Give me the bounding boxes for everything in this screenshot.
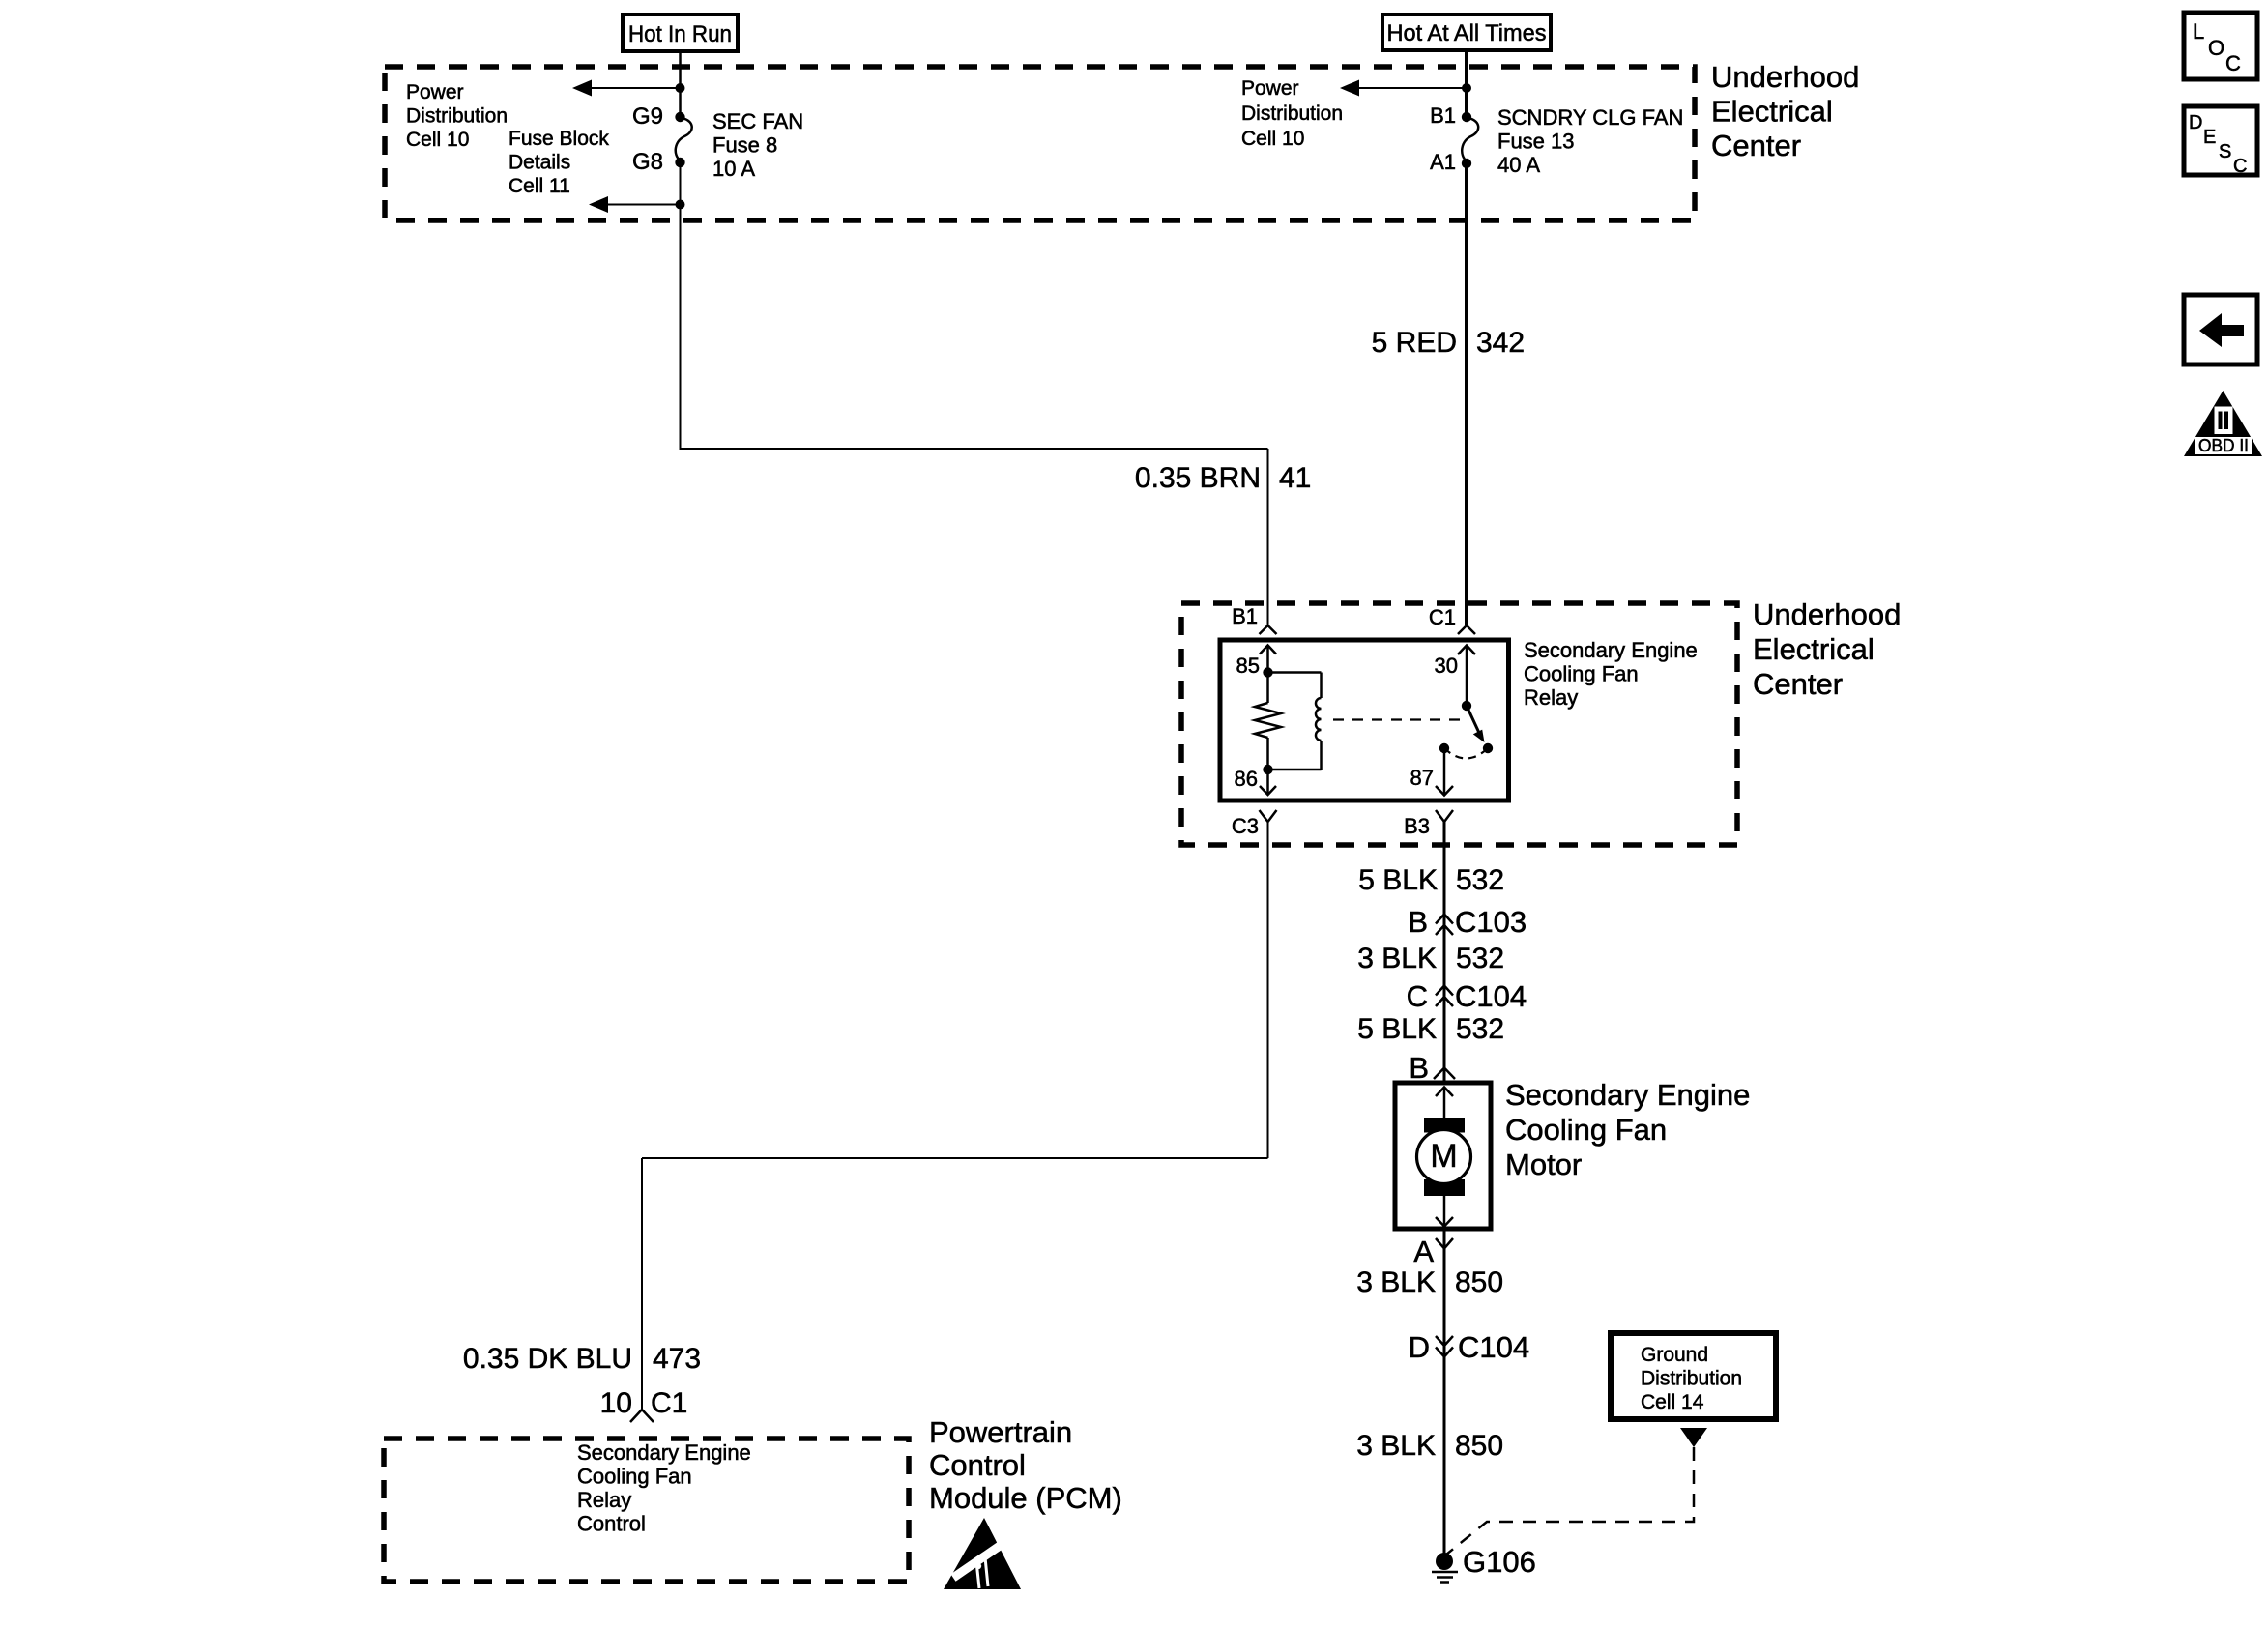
svg-text:473: 473 xyxy=(653,1343,701,1375)
label SCNDRY CLG FAN Fuse 13 40 A xyxy=(1497,105,1683,177)
svg-text:B1: B1 xyxy=(1232,604,1258,628)
svg-text:Distribution: Distribution xyxy=(1241,102,1343,125)
svg-text:C: C xyxy=(2233,156,2247,177)
pin 87 arrow xyxy=(1436,748,1453,796)
svg-text:G106: G106 xyxy=(1463,1545,1536,1579)
svg-text:3 BLK: 3 BLK xyxy=(1356,1266,1436,1298)
label Fuse Block Details Cell 11 xyxy=(509,128,609,197)
svg-text:Module (PCM): Module (PCM) xyxy=(929,1481,1122,1515)
svg-text:41: 41 xyxy=(1279,462,1311,494)
svg-text:S: S xyxy=(2219,141,2231,162)
svg-text:3 BLK: 3 BLK xyxy=(1356,1430,1436,1462)
wire 0.35 BRN 41 xyxy=(681,449,1268,625)
svg-text:Electrical: Electrical xyxy=(1753,632,1875,666)
label 5 BLK 532 xyxy=(1358,864,1504,896)
svg-text:Cooling Fan: Cooling Fan xyxy=(1505,1113,1667,1147)
svg-text:Cell 10: Cell 10 xyxy=(406,129,469,151)
label SEC FAN Fuse 8 10 A xyxy=(712,109,803,181)
pin B (motor) xyxy=(1409,1051,1455,1085)
svg-text:850: 850 xyxy=(1455,1430,1503,1462)
svg-text:Relay: Relay xyxy=(1524,685,1578,710)
svg-text:C104: C104 xyxy=(1455,979,1527,1013)
svg-text:Cell 11: Cell 11 xyxy=(509,175,570,197)
fuse F8 (SEC FAN Fuse 8 10A) xyxy=(675,112,691,167)
wire arrow to Fuse Block Details Cell 11 xyxy=(589,196,681,213)
svg-text:40 A: 40 A xyxy=(1497,153,1540,177)
svg-text:C3: C3 xyxy=(1232,814,1259,838)
svg-text:85: 85 xyxy=(1236,654,1260,678)
svg-text:Secondary Engine: Secondary Engine xyxy=(577,1440,751,1465)
ESD sensitive symbol xyxy=(944,1518,1021,1589)
svg-text:Fuse 13: Fuse 13 xyxy=(1497,130,1575,154)
pin 86 arrow xyxy=(1260,770,1276,795)
svg-text:SEC FAN: SEC FAN xyxy=(712,109,803,133)
icon LOC xyxy=(2184,13,2257,79)
wire B3 down to motor xyxy=(1443,822,1446,1083)
node junction Cell 11 feed xyxy=(676,200,685,210)
svg-text:G8: G8 xyxy=(632,149,663,175)
svg-text:M: M xyxy=(1430,1138,1457,1175)
label Power Distribution Cell 10 (left) xyxy=(406,81,508,151)
svg-text:B1: B1 xyxy=(1430,103,1456,128)
wire fuse 8 down inside box xyxy=(680,162,682,450)
icon back arrow xyxy=(2184,295,2257,364)
svg-text:D: D xyxy=(2189,112,2202,133)
svg-text:0.35 DK BLU: 0.35 DK BLU xyxy=(463,1343,632,1375)
svg-text:C104: C104 xyxy=(1458,1330,1529,1364)
wire from Hot At All Times down to fuse 13 xyxy=(1465,50,1468,117)
svg-text:C1: C1 xyxy=(651,1387,687,1419)
svg-text:Distribution: Distribution xyxy=(1641,1368,1742,1390)
wire dashed ground reference xyxy=(1446,1447,1694,1555)
label 3 BLK 850 xyxy=(1356,1266,1503,1298)
label Secondary Engine Cooling Fan Relay xyxy=(1524,638,1698,710)
label 0.35 DK BLU 473 xyxy=(463,1343,701,1375)
coil (relay winding) xyxy=(1268,673,1322,770)
svg-text:Details: Details xyxy=(509,152,570,174)
underhood electrical center box (top, dashed) xyxy=(385,67,1695,220)
svg-text:B: B xyxy=(1409,1051,1429,1085)
svg-text:Cell 10: Cell 10 xyxy=(1241,128,1304,150)
svg-text:Underhood: Underhood xyxy=(1753,597,1901,631)
node 30 xyxy=(1462,701,1471,711)
svg-text:Cooling Fan: Cooling Fan xyxy=(577,1465,692,1489)
svg-text:10 A: 10 A xyxy=(712,157,755,181)
motor M1 (Secondary Engine Cooling Fan Motor) xyxy=(1395,1083,1491,1229)
svg-text:A: A xyxy=(1413,1235,1434,1268)
label 5 BLK 532 (second) xyxy=(1357,1013,1504,1045)
svg-text:3 BLK: 3 BLK xyxy=(1357,943,1437,974)
svg-text:Underhood: Underhood xyxy=(1711,60,1859,94)
node junction G9 feed xyxy=(676,83,685,93)
wire arrow to Power Distribution (left) xyxy=(572,80,681,97)
svg-text:Control: Control xyxy=(577,1512,646,1536)
node switch contact xyxy=(1483,743,1493,753)
svg-text:30: 30 xyxy=(1435,654,1458,678)
svg-text:5 BLK: 5 BLK xyxy=(1358,864,1438,896)
svg-text:850: 850 xyxy=(1455,1266,1503,1298)
svg-text:Power: Power xyxy=(406,81,464,103)
svg-text:G9: G9 xyxy=(632,103,663,130)
node 86 xyxy=(1263,765,1272,774)
relay K (Secondary Engine Cooling Fan Relay) box xyxy=(1220,640,1509,800)
underhood electrical center box (relay, dashed) xyxy=(1181,603,1737,845)
svg-text:342: 342 xyxy=(1476,327,1525,359)
icon DESC xyxy=(2184,106,2257,177)
svg-text:E: E xyxy=(2203,127,2216,148)
pin 30 arrow xyxy=(1458,646,1475,707)
connector fork C3 xyxy=(1260,810,1277,822)
PCM box (dashed) xyxy=(384,1439,909,1582)
connector 10 C1 (PCM) xyxy=(600,1387,688,1419)
svg-text:B3: B3 xyxy=(1404,814,1430,838)
icon OBD II xyxy=(2184,391,2262,456)
wire C3 down and across to PCM xyxy=(642,822,1268,1409)
svg-text:Cell 14: Cell 14 xyxy=(1641,1391,1704,1413)
svg-text:Electrical: Electrical xyxy=(1711,95,1833,129)
svg-text:Motor: Motor xyxy=(1505,1148,1582,1181)
node junction right feed xyxy=(1462,83,1471,93)
svg-text:B: B xyxy=(1408,905,1428,939)
connector C104 (C) xyxy=(1407,979,1527,1013)
resistor (relay coil suppression) xyxy=(1255,673,1281,770)
svg-text:532: 532 xyxy=(1456,943,1504,974)
ground distribution pointer triangle xyxy=(1680,1428,1707,1447)
svg-text:C1: C1 xyxy=(1429,605,1456,629)
label 3 BLK 850 (second) xyxy=(1356,1430,1503,1462)
svg-text:532: 532 xyxy=(1456,864,1504,896)
label 3 BLK 532 xyxy=(1357,943,1504,974)
svg-text:Center: Center xyxy=(1711,129,1801,162)
connector fork B1 xyxy=(1260,625,1277,634)
svg-text:5 RED: 5 RED xyxy=(1372,327,1457,359)
ground G106 xyxy=(1432,1553,1458,1583)
svg-text:D: D xyxy=(1409,1330,1430,1364)
node Hot At All Times xyxy=(1382,15,1551,50)
svg-text:Secondary Engine: Secondary Engine xyxy=(1505,1078,1750,1112)
svg-text:10: 10 xyxy=(600,1387,632,1419)
wire arrow to Power Distribution (right) xyxy=(1340,80,1467,97)
svg-text:532: 532 xyxy=(1456,1013,1504,1045)
svg-text:86: 86 xyxy=(1235,767,1258,791)
pin A (motor) xyxy=(1413,1235,1453,1268)
svg-text:OBD II: OBD II xyxy=(2198,436,2249,455)
connector C103 (B) xyxy=(1408,905,1527,939)
svg-text:Hot At All Times: Hot At All Times xyxy=(1387,20,1547,46)
connector C104 (D) xyxy=(1409,1330,1530,1364)
label Power Distribution Cell 10 (right) xyxy=(1241,77,1343,150)
svg-text:Ground: Ground xyxy=(1641,1344,1708,1366)
svg-text:A1: A1 xyxy=(1430,150,1456,174)
svg-text:C: C xyxy=(2225,51,2241,75)
svg-text:Secondary Engine: Secondary Engine xyxy=(1524,638,1698,662)
wire dashed contact arc xyxy=(1444,748,1488,759)
svg-text:Cooling Fan: Cooling Fan xyxy=(1524,662,1639,686)
svg-text:Fuse Block: Fuse Block xyxy=(509,128,609,150)
label Underhood Electrical Center (relay) xyxy=(1753,597,1901,701)
fuse F13 (SCNDRY CLG FAN Fuse 13 40A) xyxy=(1462,112,1478,168)
svg-text:Powertrain: Powertrain xyxy=(929,1415,1072,1449)
switch arm (relay contact) xyxy=(1467,706,1485,742)
node 85 xyxy=(1263,667,1272,677)
svg-text:87: 87 xyxy=(1410,766,1434,790)
svg-text:5 BLK: 5 BLK xyxy=(1357,1013,1437,1045)
pin 85 arrow xyxy=(1260,646,1276,674)
connector fork B3 xyxy=(1436,810,1453,822)
label Secondary Engine Cooling Fan Motor xyxy=(1505,1078,1750,1181)
wire 5 RED 342 xyxy=(1465,163,1468,625)
node 87 xyxy=(1439,743,1449,753)
node Hot In Run xyxy=(623,15,738,51)
svg-text:L: L xyxy=(2193,19,2204,44)
svg-text:C: C xyxy=(1407,979,1428,1013)
svg-text:Relay: Relay xyxy=(577,1488,631,1512)
connector fork PCM C1 xyxy=(630,1410,654,1422)
label Underhood Electrical Center (top) xyxy=(1711,60,1859,162)
wire from Hot In Run down to fuse 8 xyxy=(679,51,682,117)
svg-text:Control: Control xyxy=(929,1448,1026,1482)
label 0.35 BRN 41 xyxy=(1135,462,1311,494)
svg-text:Power: Power xyxy=(1241,77,1299,100)
wire motor to ground xyxy=(1443,1229,1446,1558)
svg-text:Hot In Run: Hot In Run xyxy=(628,21,732,47)
connector fork C1 xyxy=(1458,625,1475,634)
wire dashed actuation link xyxy=(1333,718,1463,720)
svg-text:0.35 BRN: 0.35 BRN xyxy=(1135,462,1261,494)
svg-text:O: O xyxy=(2208,36,2224,60)
svg-text:Distribution: Distribution xyxy=(406,105,508,128)
label Secondary Engine Cooling Fan Relay Control xyxy=(577,1440,751,1536)
svg-text:SCNDRY CLG FAN: SCNDRY CLG FAN xyxy=(1497,105,1683,130)
label Powertrain Control Module (PCM) xyxy=(929,1415,1122,1515)
label 5 RED 342 xyxy=(1372,327,1525,359)
svg-text:Fuse 8: Fuse 8 xyxy=(712,133,777,158)
svg-text:C103: C103 xyxy=(1455,905,1527,939)
svg-text:Center: Center xyxy=(1753,667,1843,701)
label Ground Distribution Cell 14 box xyxy=(1611,1333,1776,1419)
